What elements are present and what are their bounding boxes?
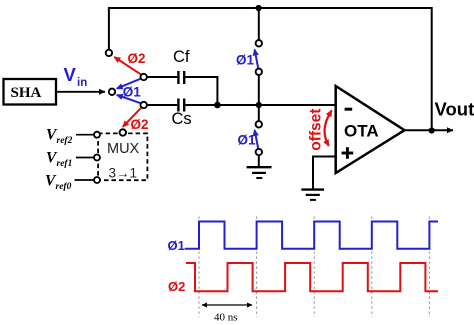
svg-text:3→1: 3→1	[109, 166, 138, 181]
svg-text:Ø2: Ø2	[131, 117, 149, 132]
svg-text:Ø1: Ø1	[236, 53, 255, 68]
svg-text:SHA: SHA	[11, 85, 42, 101]
svg-text:OTA: OTA	[344, 122, 379, 141]
svg-text:Ø1: Ø1	[238, 133, 257, 148]
svg-text:Ø1: Ø1	[168, 238, 185, 253]
svg-text:ref2: ref2	[57, 136, 73, 146]
svg-text:in: in	[77, 77, 87, 89]
svg-text:ref0: ref0	[56, 182, 72, 192]
svg-text:Cf: Cf	[173, 48, 190, 66]
svg-text:Vout: Vout	[435, 99, 474, 120]
svg-text:Cs: Cs	[172, 110, 192, 128]
svg-text:Ø1: Ø1	[123, 85, 142, 100]
svg-text:offset: offset	[308, 109, 325, 151]
svg-text:V: V	[64, 64, 77, 85]
svg-text:Ø2: Ø2	[168, 279, 185, 294]
svg-text:MUX: MUX	[107, 141, 140, 157]
svg-text:Ø2: Ø2	[128, 51, 146, 66]
svg-text:ref1: ref1	[57, 159, 73, 169]
svg-text:40 ns: 40 ns	[214, 312, 238, 324]
